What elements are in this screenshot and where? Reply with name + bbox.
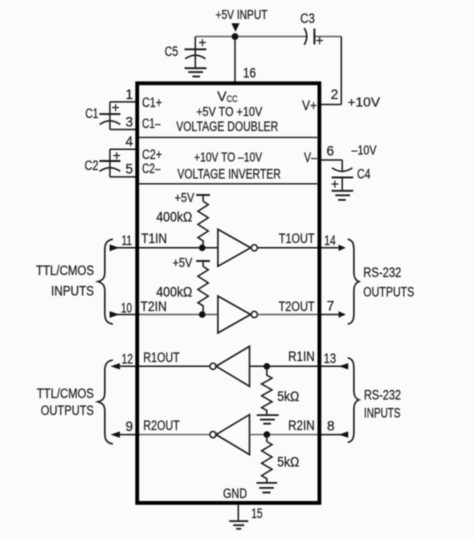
brace TTL/CMOS inputs	[98, 239, 113, 324]
input arrow	[231, 23, 239, 32]
svg-text:2: 2	[331, 87, 339, 102]
IC box U1	[137, 83, 319, 503]
svg-text:C5: C5	[165, 44, 179, 59]
svg-text:C1+: C1+	[142, 95, 162, 110]
svg-text:5: 5	[125, 161, 133, 176]
svg-text:OUTPUTS: OUTPUTS	[41, 403, 94, 418]
capacitor C2	[99, 149, 136, 177]
svg-text:3: 3	[125, 115, 133, 130]
svg-text:1: 1	[125, 87, 133, 102]
svg-text:VOLTAGE DOUBLER: VOLTAGE DOUBLER	[176, 119, 278, 134]
svg-text:C4: C4	[357, 167, 371, 182]
svg-text:5kΩ: 5kΩ	[277, 454, 299, 469]
arrow into pin 13	[339, 363, 348, 369]
wire T1 input	[110, 247, 218, 249]
svg-text:15: 15	[251, 506, 263, 521]
svg-text:C1–: C1–	[142, 116, 161, 131]
svg-text:T1OUT: T1OUT	[279, 231, 315, 246]
svg-text:T2IN: T2IN	[140, 299, 167, 314]
svg-text:8: 8	[327, 418, 335, 433]
arrow out pin 9	[111, 431, 120, 437]
svg-text:C2–: C2–	[142, 161, 161, 176]
svg-text:R1IN: R1IN	[288, 349, 315, 364]
svg-text:R2OUT: R2OUT	[143, 418, 180, 433]
svg-text:V+: V+	[302, 98, 317, 113]
wire R2 output	[119, 434, 140, 436]
section divider doubler	[139, 136, 317, 138]
brace RS-232 outputs	[348, 239, 359, 324]
svg-text:+: +	[113, 148, 121, 163]
capacitor C1	[99, 102, 136, 130]
svg-text:+10V: +10V	[348, 94, 381, 109]
arrow into pin 11	[110, 244, 120, 251]
brace RS-232 inputs	[348, 358, 359, 443]
wire T1 output	[258, 247, 339, 249]
svg-text:+5V INPUT: +5V INPUT	[216, 8, 268, 22]
arrow out pin 12	[111, 363, 120, 369]
ground below C5	[185, 68, 207, 76]
svg-text:400kΩ: 400kΩ	[156, 285, 192, 300]
wire top rail right of C3	[314, 36, 341, 38]
svg-text:C1: C1	[85, 106, 98, 121]
driver T2	[218, 296, 251, 333]
svg-text:+5V TO +10V: +5V TO +10V	[196, 104, 262, 119]
receiver R1	[210, 363, 216, 369]
svg-text:5kΩ: 5kΩ	[277, 389, 299, 404]
wire R1 input	[250, 365, 349, 367]
svg-text:T1IN: T1IN	[141, 231, 167, 246]
wire C3 to V+ vertical	[340, 37, 342, 105]
svg-text:7: 7	[327, 298, 335, 313]
svg-text:+10V TO –10V: +10V TO –10V	[194, 149, 262, 164]
svg-text:16: 16	[243, 65, 256, 80]
svg-text:RS-232: RS-232	[364, 387, 401, 402]
junction dot +5V node	[232, 33, 239, 40]
wire R2 input	[250, 434, 319, 436]
svg-text:4: 4	[125, 134, 133, 149]
svg-text:R1OUT: R1OUT	[143, 350, 180, 365]
capacitor C4	[332, 160, 354, 191]
svg-text:INPUTS: INPUTS	[51, 283, 94, 298]
svg-text:GND: GND	[223, 486, 247, 501]
wire T2 output	[258, 314, 319, 316]
svg-text:C2+: C2+	[142, 147, 162, 162]
wire pin 16	[234, 37, 236, 83]
svg-text:+5V: +5V	[173, 255, 193, 270]
svg-text:+: +	[331, 176, 339, 191]
svg-text:V–: V–	[304, 150, 317, 165]
driver T1	[218, 229, 251, 266]
ground pin 15	[229, 521, 248, 529]
svg-text:R2IN: R2IN	[288, 418, 315, 433]
arrow into pin 8	[339, 431, 348, 437]
brace TTL/CMOS outputs	[98, 360, 113, 444]
ground below 5k R2	[256, 483, 277, 493]
svg-text:12: 12	[122, 351, 134, 366]
ground below C4	[332, 191, 354, 200]
svg-text:11: 11	[122, 233, 133, 248]
svg-text:+: +	[112, 100, 120, 115]
resistor 5k R2	[262, 435, 272, 483]
svg-text:INPUTS: INPUTS	[364, 406, 401, 421]
resistor 400k T1	[198, 201, 208, 248]
svg-text:13: 13	[324, 351, 337, 366]
svg-text:–10V: –10V	[352, 142, 377, 157]
capacitor C3	[304, 28, 314, 45]
arrow out pin 14	[339, 245, 346, 251]
receiver R2	[210, 432, 216, 438]
svg-text:OUTPUTS: OUTPUTS	[363, 285, 414, 300]
svg-text:6: 6	[327, 143, 335, 158]
junction dot T2	[199, 311, 206, 318]
svg-text:9: 9	[125, 419, 133, 434]
svg-text:TTL/CMOS: TTL/CMOS	[37, 386, 94, 401]
svg-text:+: +	[199, 35, 207, 50]
wire pin 6 stub	[320, 159, 342, 161]
junction dot T1	[199, 245, 206, 252]
capacitor C5	[185, 37, 207, 68]
resistor 5k R1	[262, 366, 272, 415]
section divider inverter	[139, 183, 317, 185]
wire R1 output	[119, 365, 210, 367]
svg-text:T2OUT: T2OUT	[279, 299, 315, 314]
arrow out pin 7	[339, 311, 346, 317]
svg-text:14: 14	[324, 233, 336, 248]
ground below 5k R1	[257, 415, 279, 424]
svg-text:+5V: +5V	[175, 190, 195, 205]
wire pin 15	[237, 505, 239, 521]
junction dot R2	[264, 431, 271, 438]
wire pin 2 stub	[320, 104, 341, 106]
svg-text:C2: C2	[85, 158, 99, 173]
svg-text:400kΩ: 400kΩ	[156, 209, 192, 224]
svg-text:VOLTAGE INVERTER: VOLTAGE INVERTER	[177, 166, 281, 181]
arrow into pin 10	[110, 311, 120, 318]
svg-text:TTL/CMOS: TTL/CMOS	[36, 263, 94, 278]
svg-text:+: +	[316, 33, 324, 48]
wire top rail left	[195, 36, 306, 38]
svg-text:C3: C3	[300, 11, 315, 26]
svg-text:RS-232: RS-232	[363, 265, 401, 280]
svg-text:10: 10	[121, 300, 132, 315]
resistor 400k T2	[198, 266, 208, 314]
wire T2 input	[110, 314, 140, 316]
junction dot R1	[264, 363, 271, 370]
